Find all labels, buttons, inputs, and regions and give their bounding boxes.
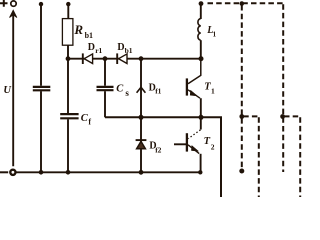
svg-text:2: 2 [211,142,215,151]
svg-text:r1: r1 [95,46,102,55]
svg-text:b1: b1 [125,46,133,55]
svg-text:1: 1 [211,87,215,96]
svg-text:T: T [204,136,211,147]
svg-text:D: D [117,42,124,53]
svg-text:f: f [88,117,91,126]
svg-text:f2: f2 [155,146,161,155]
svg-text:U: U [3,85,12,96]
svg-text:D: D [88,42,95,53]
svg-text:1: 1 [213,30,217,38]
svg-text:s: s [125,88,129,98]
svg-text:C: C [116,83,124,94]
svg-text:f1: f1 [155,87,161,96]
svg-text:b1: b1 [85,31,93,40]
svg-text:R: R [73,22,83,37]
